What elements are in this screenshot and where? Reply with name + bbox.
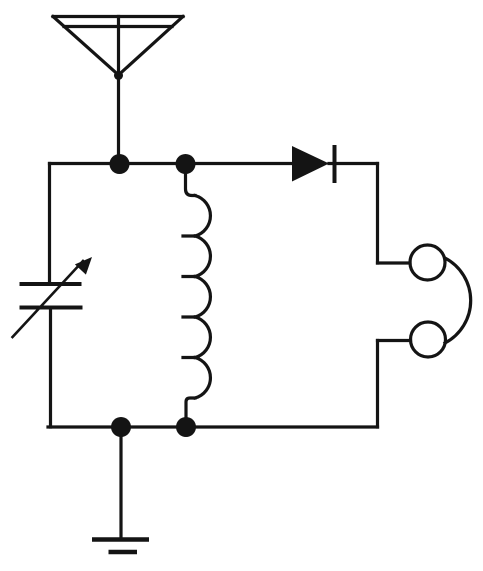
- node A (antenna junction): [110, 154, 130, 174]
- earphone P1: [410, 245, 471, 357]
- capacitor C1 (variable): [13, 257, 93, 337]
- wire right rail lower: [376, 341, 379, 428]
- wire top rail right of diode: [329, 162, 378, 165]
- antenna ANT1: [53, 17, 183, 81]
- wire ground lead: [119, 427, 122, 538]
- diode D1: [292, 146, 335, 182]
- inductor L1: [183, 164, 210, 427]
- wire earphone bottom lead: [378, 339, 411, 342]
- wire right rail upper: [376, 164, 379, 264]
- wire left rail lower: [49, 310, 52, 427]
- wire left rail upper: [48, 164, 51, 282]
- node B (coil top junction): [176, 154, 196, 174]
- wire bottom rail: [48, 425, 378, 428]
- wire top rail left: [50, 162, 293, 165]
- wire earphone top lead: [378, 261, 411, 264]
- node C (ground junction): [111, 417, 131, 437]
- node D (coil bottom junction): [176, 417, 196, 437]
- ground GND: [92, 540, 149, 553]
- wire antenna lead: [117, 17, 120, 164]
